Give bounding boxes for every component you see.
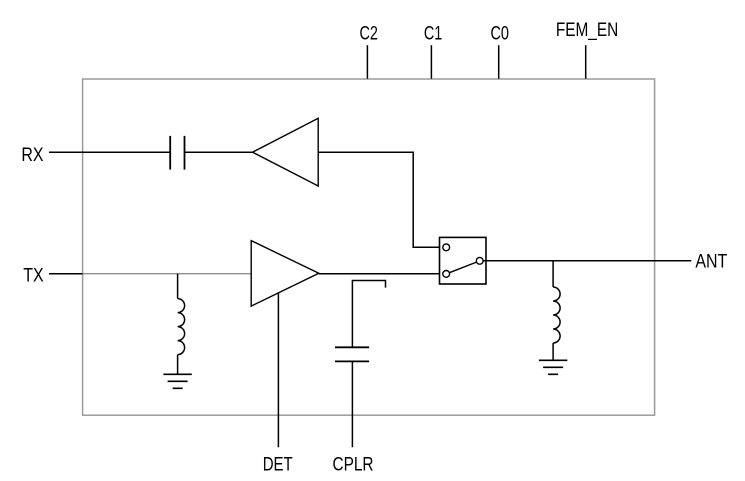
- wire TX inside box to PA input (gray): [83, 273, 252, 275]
- wire C2 stub: [366, 45, 368, 78]
- wire capacitor to LNA output: [185, 151, 253, 153]
- svg-text:TX: TX: [23, 264, 44, 286]
- wire RX port to capacitor: [49, 151, 170, 153]
- svg-text:C0: C0: [490, 23, 508, 44]
- svg-text:DET: DET: [263, 454, 293, 475]
- svg-text:CPLR: CPLR: [333, 453, 374, 475]
- wire TX port outside box: [49, 273, 83, 275]
- wire PA output to switch pole 2: [319, 273, 443, 275]
- inductor L2: [553, 287, 560, 343]
- switch U3 body: [440, 237, 487, 284]
- ground G2: [539, 360, 567, 374]
- wire TX shunt branch: [177, 274, 179, 299]
- wire DET from PA down: [277, 288, 279, 447]
- FEM module boundary box: [83, 79, 655, 415]
- capacitor C-CPLR: [335, 347, 369, 361]
- wire CPLR cap to port: [351, 361, 353, 447]
- capacitor C-RX (series blocking cap): [170, 136, 184, 170]
- wire FEM_EN stub: [585, 45, 587, 78]
- coupler coupled-line CPLR: [352, 281, 385, 348]
- wire L1 to ground: [177, 355, 179, 375]
- switch pole 1 contact: [443, 244, 450, 251]
- wire LNA input to switch pole 1: [318, 152, 443, 247]
- wire switch to ANT port: [483, 260, 691, 262]
- switch throw contact: [476, 257, 483, 264]
- svg-text:FEM_EN: FEM_EN: [556, 18, 618, 40]
- svg-text:C1: C1: [424, 23, 442, 44]
- op-amp U1 LNA (points left): [253, 118, 319, 186]
- wire C0 stub: [498, 45, 500, 78]
- ground G1: [163, 374, 191, 388]
- svg-text:ANT: ANT: [695, 250, 727, 272]
- switch pole 2 contact: [443, 271, 450, 278]
- svg-text:C2: C2: [359, 23, 377, 44]
- wire ANT shunt branch: [552, 261, 554, 287]
- op-amp U2 PA (points right): [251, 241, 319, 307]
- switch arm: [449, 262, 476, 273]
- inductor L1: [178, 299, 185, 355]
- wire C1 stub: [430, 45, 432, 78]
- wire L2 to ground: [552, 343, 554, 360]
- svg-text:RX: RX: [21, 144, 43, 166]
